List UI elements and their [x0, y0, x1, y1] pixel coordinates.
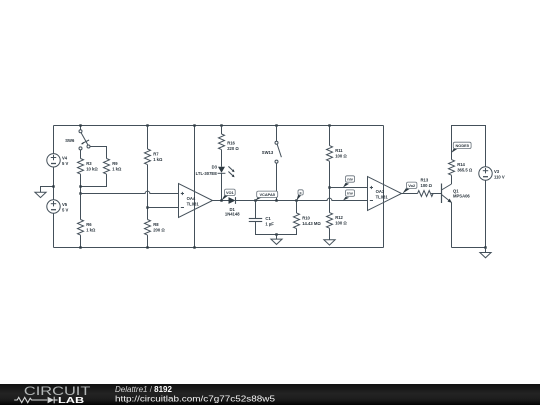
svg-text:TL081: TL081	[187, 201, 200, 206]
svg-text:100 Ω: 100 Ω	[335, 153, 347, 158]
resistor R8	[145, 220, 166, 236]
transistor Q1 MPSA06	[442, 184, 471, 204]
wire R11 top	[329, 126, 331, 146]
wire R10 top	[296, 201, 298, 214]
svg-text:R9: R9	[112, 161, 118, 166]
logo resistor zigzag	[14, 397, 57, 404]
svg-text:1 µF: 1 µF	[265, 222, 274, 227]
wire V3 bottom	[485, 180, 487, 247]
voltage source V5	[47, 200, 69, 213]
svg-text:100 Ω: 100 Ω	[335, 220, 347, 225]
resistor R12	[327, 213, 348, 229]
ground C1/R10	[271, 235, 282, 245]
node R6 bottom rail	[79, 246, 81, 248]
svg-text:365.5 Ω: 365.5 Ω	[457, 167, 473, 172]
flag VCAPA5	[256, 191, 278, 200]
svg-text:220 Ω: 220 Ω	[227, 146, 239, 151]
wire R6 bottom	[80, 235, 82, 247]
svg-text:R3: R3	[86, 161, 92, 166]
node D3 output junction	[220, 199, 222, 201]
diode D1 1N4148	[225, 197, 240, 217]
wire R7 top	[147, 126, 149, 150]
svg-text:5 V: 5 V	[62, 207, 68, 212]
wire OA4 power vertical	[194, 126, 196, 248]
node C1/R10 ground tee	[275, 233, 277, 235]
svg-text:110 V: 110 V	[494, 175, 505, 180]
op-amp OA4 TL081	[179, 184, 213, 218]
svg-text:1 kΩ: 1 kΩ	[153, 157, 163, 162]
svg-text:R7: R7	[153, 151, 159, 156]
wire SW13 bottom	[276, 163, 278, 200]
resistor R11	[327, 146, 348, 162]
wire inverting rail	[148, 207, 179, 209]
node R10 top junction	[295, 199, 297, 201]
wire D3 to output	[221, 173, 223, 200]
wire C1 bottom to R10 bottom	[256, 222, 297, 235]
svg-text:1 kΩ: 1 kΩ	[86, 227, 96, 232]
svg-text:10 kΩ: 10 kΩ	[86, 166, 98, 171]
wire niv rail	[330, 187, 368, 189]
flag Vo2	[403, 182, 417, 193]
wire R6 top	[80, 194, 82, 220]
wire OA3 output	[402, 193, 418, 195]
wire output rail with hop	[236, 198, 368, 200]
flag niv	[343, 176, 355, 188]
node R7 top rail	[146, 124, 148, 126]
resistor R3	[78, 159, 99, 175]
node OA4 power bottom	[193, 246, 195, 248]
wire SW6 left throw to R3	[80, 150, 82, 159]
svg-text:R8: R8	[153, 222, 159, 227]
resistor R16	[219, 134, 240, 151]
wire SW6 right throw to R9	[90, 147, 107, 159]
svg-text:R6: R6	[86, 222, 92, 227]
svg-text:D3: D3	[212, 164, 218, 169]
switch SW13	[262, 126, 282, 164]
resistor R13	[418, 178, 434, 197]
flag NODE5	[452, 142, 472, 153]
node R11 top rail	[328, 124, 330, 126]
voltage source V4	[47, 154, 69, 167]
svg-text:MPSA06: MPSA06	[453, 194, 470, 199]
svg-text:V3: V3	[494, 169, 500, 174]
svg-text:1N4148: 1N4148	[225, 212, 240, 217]
LED D3	[196, 164, 235, 177]
wire noninverting rail with hop	[81, 191, 179, 193]
wire top supply rail	[54, 125, 384, 127]
resistor R14	[449, 160, 473, 176]
wire C1 top	[255, 201, 257, 219]
node SW13 output junction	[275, 199, 277, 201]
svg-text:V4: V4	[62, 156, 68, 161]
svg-text:14.43 MΩ: 14.43 MΩ	[302, 221, 321, 226]
node C1 top junction	[254, 199, 256, 201]
svg-text:VO1: VO1	[226, 190, 235, 195]
resistor R7	[145, 149, 164, 165]
node niv tee	[328, 186, 330, 188]
node V3 ground junction	[484, 246, 486, 248]
wire Q1 collector up	[451, 175, 453, 184]
resistor R10	[294, 213, 322, 229]
node R8 bottom rail	[146, 246, 148, 248]
svg-text:100 Ω: 100 Ω	[421, 183, 433, 188]
node noninv tee	[79, 192, 81, 194]
svg-text:5 V: 5 V	[62, 161, 68, 166]
svg-text:inv: inv	[347, 191, 353, 196]
svg-text:C1: C1	[265, 216, 271, 221]
resistor R6	[78, 220, 97, 236]
svg-text:niv: niv	[347, 177, 353, 182]
footer bar	[0, 384, 540, 405]
svg-text:LTL-307EE: LTL-307EE	[196, 171, 218, 176]
svg-text:R14: R14	[457, 162, 465, 167]
flag c	[297, 190, 304, 201]
wire R12 bottom	[329, 228, 331, 240]
flag VO1	[222, 189, 236, 200]
svg-text:SW13: SW13	[262, 150, 274, 155]
svg-text:200 Ω: 200 Ω	[153, 227, 165, 232]
svg-text:R12: R12	[335, 215, 343, 220]
wire OA3 power vertical	[383, 126, 385, 248]
resistor R9	[104, 159, 123, 175]
node R16 top rail	[220, 124, 222, 126]
node left ground junction	[52, 185, 54, 187]
node OA4 power top	[193, 124, 195, 126]
flag inv	[343, 190, 355, 201]
ground right	[480, 248, 491, 258]
ground R12	[324, 240, 335, 245]
wire emitter bottom run	[452, 247, 486, 249]
svg-text:TL081: TL081	[376, 194, 389, 199]
svg-text:1 kΩ: 1 kΩ	[112, 166, 122, 171]
wire R14 top loop	[452, 126, 486, 167]
wire Q1 emitter down	[451, 203, 453, 248]
node R3/R9 join	[79, 185, 81, 187]
svg-text:R10: R10	[302, 215, 310, 220]
node SW13 top rail	[275, 124, 277, 126]
node inverting tee	[146, 206, 148, 208]
svg-text:V5: V5	[62, 202, 68, 207]
wire R3 bottom	[80, 174, 82, 193]
switch SW6	[65, 126, 90, 150]
svg-text:Vo2: Vo2	[408, 183, 416, 188]
capacitor C1	[249, 216, 275, 227]
svg-text:R11: R11	[335, 148, 343, 153]
svg-text:VCAPA5: VCAPA5	[259, 192, 275, 197]
wire R13 to Q1 base	[431, 193, 441, 195]
wire R16 to D3	[221, 150, 223, 167]
wire R16 top	[221, 126, 223, 135]
svg-text:SW6: SW6	[65, 138, 75, 143]
wire OA4 output	[213, 200, 229, 202]
wire R8 bottom	[147, 235, 149, 247]
wire bottom rail	[54, 247, 384, 249]
wire R7 bottom to R8 top	[147, 165, 149, 220]
wire left vertical	[53, 126, 55, 248]
wire R9 bottom to join	[81, 174, 107, 186]
ground left	[35, 187, 54, 198]
node SW6 top rail junction	[79, 124, 81, 126]
voltage source V3	[479, 167, 505, 180]
op-amp OA3 TL081	[368, 177, 402, 211]
svg-text:R16: R16	[227, 140, 235, 145]
svg-text:NODE5: NODE5	[455, 143, 469, 148]
wire R11 bottom through to R12	[329, 161, 331, 212]
